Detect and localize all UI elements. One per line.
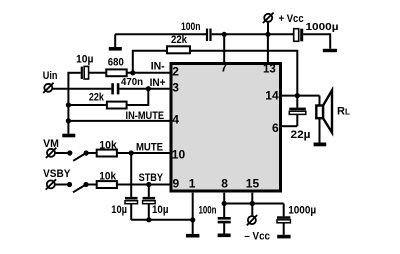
svg-text:1000µ: 1000µ xyxy=(288,205,316,217)
ground (top right) xyxy=(323,49,337,52)
svg-text:MUTE: MUTE xyxy=(136,142,163,154)
svg-text:680: 680 xyxy=(108,56,124,68)
svg-text:STBY: STBY xyxy=(139,172,164,184)
svg-text:+ Vcc: + Vcc xyxy=(279,13,304,25)
wire (left ground vertical) xyxy=(67,72,69,134)
svg-text:Uin: Uin xyxy=(43,70,58,82)
wire (22u to pin 6) xyxy=(282,125,297,127)
svg-text:IN-: IN- xyxy=(151,60,165,72)
wire (pin 8 stub) xyxy=(223,193,225,217)
svg-text:6: 6 xyxy=(272,121,279,135)
node pin13/+Vcc junction xyxy=(265,32,270,37)
wire (10u common rail to pin 1 line) xyxy=(131,219,193,221)
svg-text:100n: 100n xyxy=(181,21,201,33)
node pin15/-Vcc junction xyxy=(250,201,255,206)
svg-text:14: 14 xyxy=(265,89,279,103)
resistor 22k (IN+ to ground) xyxy=(89,92,127,109)
wire (680 to pin 2 IN-) xyxy=(127,72,170,74)
wire (pin 15 stub) xyxy=(251,193,253,216)
wire (Uin to 470n, crosses ground line) xyxy=(53,88,112,90)
wire (IN- node up to 22k) xyxy=(133,51,167,73)
node pin7/rail junction xyxy=(222,32,227,37)
wire (VSBY to switch) xyxy=(55,184,70,186)
node MUTE/10u junction xyxy=(129,150,134,155)
ground (top-left, Vcc decoupling) xyxy=(109,34,122,50)
wire (pin 7 stub) xyxy=(223,34,225,62)
wire (ground line to 22k) xyxy=(68,104,107,106)
node 22k/ground junction xyxy=(66,102,71,107)
terminal -Vcc xyxy=(244,215,270,242)
svg-text:22k: 22k xyxy=(171,34,188,46)
svg-text:470n: 470n xyxy=(121,77,143,88)
switch VSBY (open) xyxy=(67,182,89,192)
wire (22k right to pin14 node, crosses pin7/13 stubs) xyxy=(190,51,297,96)
capacitor 1000u (bottom, polarized) xyxy=(277,204,316,235)
node pin8/-Vcc rail junction xyxy=(222,201,227,206)
wire (top rail left: ground to 100n) xyxy=(115,33,206,35)
svg-text:VSBY: VSBY xyxy=(43,168,71,180)
wire (pin 1 to ground) xyxy=(192,193,194,234)
svg-text:10: 10 xyxy=(172,147,186,161)
svg-text:IN-MUTE: IN-MUTE xyxy=(126,110,165,122)
node pin14/22u/22k junction xyxy=(295,93,300,98)
node IN+ junction xyxy=(146,86,151,91)
svg-text:15: 15 xyxy=(246,176,260,190)
op-amp U1 (power amplifier IC body) xyxy=(171,64,281,192)
wire (22k up to IN+ node) xyxy=(127,89,149,105)
svg-text:10µ: 10µ xyxy=(111,204,127,216)
ground (pin 1) xyxy=(186,234,199,238)
svg-text:2: 2 xyxy=(172,64,179,78)
svg-text:RL: RL xyxy=(337,105,350,117)
terminal VSBY xyxy=(43,168,71,190)
ground (speaker) xyxy=(314,143,327,147)
terminal VM xyxy=(43,138,59,158)
svg-text:22µ: 22µ xyxy=(291,129,311,141)
svg-text:7: 7 xyxy=(221,61,228,75)
capacitor 22u (bootstrap, polarized) xyxy=(289,108,310,142)
wire (-Vcc rail) xyxy=(224,203,284,205)
wire (10k to pin 10 MUTE) xyxy=(117,152,170,154)
svg-text:– Vcc: – Vcc xyxy=(244,230,270,242)
node IN-MUTE/ground junction xyxy=(66,118,71,123)
capacitor 470n xyxy=(111,77,143,94)
wire (switch to 10k) xyxy=(86,184,97,186)
capacitor 100n (bottom) xyxy=(199,205,231,234)
speaker RL xyxy=(316,90,350,142)
capacitor 10u (stby, polarized) xyxy=(143,185,169,220)
wire (switch to 10k) xyxy=(86,152,97,154)
svg-text:9: 9 xyxy=(173,176,180,190)
capacitor 10u (mute, polarized) xyxy=(111,153,137,220)
svg-text:10µ: 10µ xyxy=(152,204,169,216)
switch VM (open) xyxy=(67,150,88,160)
resistor 680 xyxy=(106,56,126,76)
wire (pin14 node down to 22u) xyxy=(296,96,298,108)
resistor 10k (mute) xyxy=(97,140,118,157)
wire (IN-MUTE: ground line to pin 4) xyxy=(68,120,169,122)
svg-text:3: 3 xyxy=(172,80,179,94)
node STBY/10u junction xyxy=(146,182,151,187)
ground (left column) xyxy=(62,134,75,138)
svg-text:1000µ: 1000µ xyxy=(306,22,339,33)
svg-text:22k: 22k xyxy=(89,92,105,104)
wire (10k to pin 9 STBY) xyxy=(117,184,170,186)
ground (100n bottom) xyxy=(218,234,231,238)
node rail/stby-cap junction xyxy=(146,217,151,222)
wire (top rail right to ground corner) xyxy=(303,34,330,49)
svg-text:4: 4 xyxy=(172,112,179,126)
capacitor 1000u (top right, polarized) xyxy=(294,22,339,41)
capacitor 100n (top decoupling) xyxy=(181,21,212,41)
node IN- junction xyxy=(130,70,135,75)
wire (10u to 680) xyxy=(89,72,107,74)
ground (1000u bottom) xyxy=(277,235,290,239)
resistor 10k (stby) xyxy=(97,170,117,188)
terminal Uin xyxy=(43,70,58,93)
wire (gnd vertical to 10u) xyxy=(68,72,80,74)
svg-text:100n: 100n xyxy=(199,205,217,217)
wire (pin 14 to speaker corner) xyxy=(282,95,320,97)
terminal +Vcc xyxy=(263,13,304,35)
svg-text:8: 8 xyxy=(221,176,228,190)
resistor 22k (feedback, top) xyxy=(167,34,190,54)
wire (VM to switch) xyxy=(55,152,70,154)
wire (pin 13 stub) xyxy=(267,34,269,62)
svg-text:13: 13 xyxy=(263,63,276,75)
svg-text:10µ: 10µ xyxy=(76,54,94,66)
wire (top rail mid: 100n to 1000u) xyxy=(212,33,294,35)
svg-text:IN+: IN+ xyxy=(150,77,166,89)
node rail/pin1 junction xyxy=(190,217,195,222)
wire (470n to pin 3 IN+) xyxy=(119,88,169,90)
svg-text:1: 1 xyxy=(189,176,196,190)
capacitor 10u (series with 680, polarized) xyxy=(76,54,94,80)
